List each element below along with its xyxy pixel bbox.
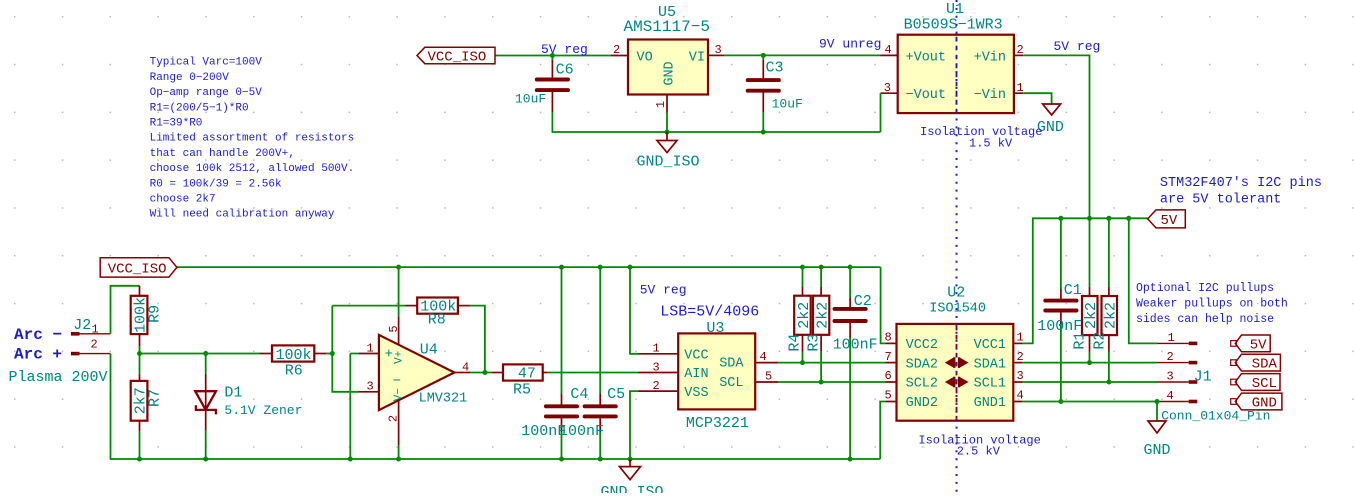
svg-text:1: 1 xyxy=(92,322,99,336)
svg-text:SCL1: SCL1 xyxy=(974,377,1006,392)
svg-text:ISO1540: ISO1540 xyxy=(929,302,986,317)
svg-text:2: 2 xyxy=(613,43,620,57)
svg-text:J1: J1 xyxy=(1194,368,1212,385)
svg-text:J2: J2 xyxy=(73,317,91,334)
svg-text:C2: C2 xyxy=(854,293,872,310)
svg-text:VCC: VCC xyxy=(684,348,708,363)
svg-text:R1=(200/5−1)*R0: R1=(200/5−1)*R0 xyxy=(150,102,249,114)
svg-text:Plasma 200V: Plasma 200V xyxy=(9,369,108,386)
svg-text:100nF: 100nF xyxy=(559,423,604,440)
svg-text:C4: C4 xyxy=(570,386,588,403)
svg-text:47: 47 xyxy=(518,366,536,383)
svg-text:GND_ISO: GND_ISO xyxy=(637,154,700,171)
svg-text:SCL: SCL xyxy=(719,376,743,391)
svg-text:5: 5 xyxy=(765,369,772,383)
svg-text:that can handle 200V+,: that can handle 200V+, xyxy=(150,148,295,160)
svg-text:U1: U1 xyxy=(946,1,964,18)
svg-text:LSB=5V/4096: LSB=5V/4096 xyxy=(660,304,759,321)
svg-text:D1: D1 xyxy=(224,385,242,402)
svg-text:R1=39*R0: R1=39*R0 xyxy=(150,118,203,130)
svg-text:−: − xyxy=(393,374,401,390)
svg-text:6: 6 xyxy=(885,369,892,383)
svg-text:STM32F407's I2C pins: STM32F407's I2C pins xyxy=(1160,176,1322,191)
svg-text:100k: 100k xyxy=(420,299,456,316)
svg-text:choose 100k 2512, allowed 500V: choose 100k 2512, allowed 500V. xyxy=(150,163,355,175)
svg-text:100nF: 100nF xyxy=(833,336,878,353)
svg-text:2.5 kV: 2.5 kV xyxy=(957,445,1001,459)
svg-text:+: + xyxy=(385,347,393,363)
svg-text:VCC_ISO: VCC_ISO xyxy=(428,50,487,66)
svg-text:C1: C1 xyxy=(1064,282,1082,299)
svg-text:5V reg: 5V reg xyxy=(640,283,687,298)
svg-text:R4: R4 xyxy=(786,334,803,352)
svg-text:7: 7 xyxy=(885,350,892,364)
svg-text:Weaker pullups on both: Weaker pullups on both xyxy=(1136,298,1288,311)
svg-text:VCC_ISO: VCC_ISO xyxy=(108,261,167,277)
svg-text:1: 1 xyxy=(1017,81,1024,95)
svg-text:are 5V tolerant: are 5V tolerant xyxy=(1160,193,1282,208)
svg-text:4: 4 xyxy=(462,360,469,374)
svg-text:−Vin: −Vin xyxy=(974,88,1006,103)
svg-text:GND2: GND2 xyxy=(906,396,938,411)
svg-text:choose 2k7: choose 2k7 xyxy=(150,194,216,206)
svg-text:V−: V− xyxy=(393,388,405,401)
svg-text:SCL: SCL xyxy=(1252,376,1277,392)
svg-text:C5: C5 xyxy=(607,386,625,403)
svg-text:R0 = 100k/39 = 2.56k: R0 = 100k/39 = 2.56k xyxy=(150,178,282,190)
svg-text:GND: GND xyxy=(663,61,678,85)
svg-text:5.1V Zener: 5.1V Zener xyxy=(224,403,302,418)
svg-text:Will need calibration anyway: Will need calibration anyway xyxy=(150,209,335,221)
svg-text:10uF: 10uF xyxy=(772,97,803,112)
svg-text:2k2: 2k2 xyxy=(1103,302,1120,329)
svg-text:3: 3 xyxy=(1017,369,1024,383)
svg-text:8: 8 xyxy=(885,331,892,345)
svg-text:3: 3 xyxy=(367,380,374,394)
svg-text:SDA: SDA xyxy=(1252,357,1278,373)
svg-text:Typical Varc=100V: Typical Varc=100V xyxy=(150,57,263,69)
svg-text:2k7: 2k7 xyxy=(132,387,149,414)
svg-text:2k2: 2k2 xyxy=(815,302,832,329)
svg-text:100k: 100k xyxy=(276,347,312,364)
svg-text:1.5 kV: 1.5 kV xyxy=(969,136,1013,150)
svg-text:1: 1 xyxy=(653,342,660,356)
svg-text:Arc −: Arc − xyxy=(14,326,62,344)
svg-text:VO: VO xyxy=(637,50,653,65)
svg-text:4: 4 xyxy=(760,350,767,364)
svg-text:2k2: 2k2 xyxy=(796,302,813,329)
svg-text:2: 2 xyxy=(1017,43,1024,57)
svg-text:C6: C6 xyxy=(556,62,574,79)
svg-text:V+: V+ xyxy=(394,351,406,364)
svg-text:Arc +: Arc + xyxy=(14,345,62,363)
svg-text:GND_ISO: GND_ISO xyxy=(601,484,664,493)
svg-text:10uF: 10uF xyxy=(515,92,546,107)
svg-text:R6: R6 xyxy=(285,362,303,379)
svg-text:4: 4 xyxy=(1017,389,1024,403)
svg-text:VCC1: VCC1 xyxy=(974,338,1006,353)
svg-text:R3: R3 xyxy=(806,334,823,352)
svg-text:2: 2 xyxy=(1017,350,1024,364)
svg-text:LMV321: LMV321 xyxy=(419,391,468,406)
svg-text:5: 5 xyxy=(885,389,892,403)
svg-text:1: 1 xyxy=(367,341,374,355)
svg-text:Range 0−200V: Range 0−200V xyxy=(150,72,230,84)
svg-text:4: 4 xyxy=(1167,389,1174,403)
svg-text:2k2: 2k2 xyxy=(1083,302,1100,329)
svg-text:R2: R2 xyxy=(1091,332,1108,350)
svg-text:U3: U3 xyxy=(706,320,724,337)
svg-text:VSS: VSS xyxy=(684,386,708,401)
svg-text:−Vout: −Vout xyxy=(906,88,947,103)
svg-text:5V: 5V xyxy=(1161,213,1178,229)
svg-text:5V reg: 5V reg xyxy=(1054,39,1101,54)
svg-text:AIN: AIN xyxy=(684,367,708,382)
svg-text:2: 2 xyxy=(91,338,98,352)
svg-text:3: 3 xyxy=(715,43,722,57)
svg-text:4: 4 xyxy=(885,43,892,57)
svg-text:R1: R1 xyxy=(1071,332,1088,350)
svg-text:3: 3 xyxy=(1167,370,1174,384)
svg-text:MCP3221: MCP3221 xyxy=(686,415,749,432)
svg-text:SCL2: SCL2 xyxy=(906,377,938,392)
svg-text:Optional I2C pullups: Optional I2C pullups xyxy=(1136,282,1274,295)
svg-text:1: 1 xyxy=(654,101,668,108)
svg-text:100k: 100k xyxy=(132,297,149,333)
svg-text:5: 5 xyxy=(387,325,401,332)
svg-text:B0509S−1WR3: B0509S−1WR3 xyxy=(904,17,1003,34)
svg-text:3: 3 xyxy=(653,360,660,374)
svg-text:1: 1 xyxy=(1168,331,1175,345)
svg-text:VI: VI xyxy=(689,50,705,65)
svg-text:2: 2 xyxy=(653,379,660,393)
svg-text:1: 1 xyxy=(1017,331,1024,345)
svg-text:9V unreg: 9V unreg xyxy=(819,37,881,52)
svg-text:SDA: SDA xyxy=(719,357,744,372)
svg-text:SDA2: SDA2 xyxy=(906,357,938,372)
svg-text:VCC2: VCC2 xyxy=(906,338,938,353)
svg-text:5V reg: 5V reg xyxy=(541,42,588,57)
svg-text:+Vout: +Vout xyxy=(906,50,947,65)
svg-text:C3: C3 xyxy=(766,60,784,77)
svg-text:R5: R5 xyxy=(513,382,531,399)
svg-text:+Vin: +Vin xyxy=(974,50,1006,65)
svg-text:sides can help noise: sides can help noise xyxy=(1136,313,1274,326)
svg-text:SDA1: SDA1 xyxy=(974,357,1006,372)
svg-text:5V: 5V xyxy=(1250,337,1267,353)
svg-text:GND: GND xyxy=(1144,442,1171,459)
svg-text:Op−amp range 0−5V: Op−amp range 0−5V xyxy=(150,87,263,99)
svg-text:3: 3 xyxy=(884,81,891,95)
svg-text:2: 2 xyxy=(386,415,400,422)
svg-text:AMS1117−5: AMS1117−5 xyxy=(624,18,710,36)
svg-text:U4: U4 xyxy=(420,341,438,358)
svg-text:Limited assortment of resistor: Limited assortment of resistors xyxy=(150,133,355,145)
svg-text:Conn_01x04_Pin: Conn_01x04_Pin xyxy=(1161,409,1270,424)
svg-text:2: 2 xyxy=(1167,350,1174,364)
svg-text:GND1: GND1 xyxy=(974,396,1006,411)
